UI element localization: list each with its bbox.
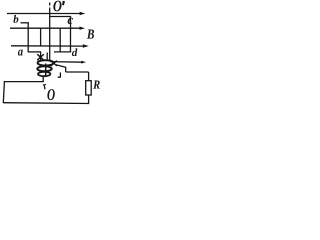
small tick top bar <box>43 84 46 87</box>
coil left end loop wire <box>28 51 41 53</box>
rotation axis O'O main <box>49 8 51 62</box>
field arrow B2 head <box>80 27 86 30</box>
coil left side ab <box>27 22 29 52</box>
brush X2 stroke 2 <box>51 61 57 66</box>
label O' <box>53 1 61 12</box>
label c <box>68 18 73 24</box>
rotation arrow line <box>50 61 82 64</box>
label b <box>13 15 18 23</box>
field arrow B3 head <box>83 44 89 48</box>
resistor bottom lead <box>88 95 90 103</box>
axle bracket to coil right side <box>50 16 71 18</box>
label d <box>72 48 78 56</box>
axle center line through rings <box>45 64 47 77</box>
wire brush2 slant to bend <box>56 65 66 68</box>
rotation arrow head <box>81 61 86 64</box>
brush X1 stroke 1 <box>37 54 44 60</box>
circuit bottom wire <box>3 102 89 105</box>
coil left lead wire lower to ring <box>40 52 42 61</box>
field arrow B3 / coil side ad <box>11 45 84 47</box>
slip ring 1 <box>38 60 54 65</box>
wire right vertical down <box>65 67 67 72</box>
prime of O' <box>62 1 65 6</box>
resistor top lead <box>88 72 90 81</box>
coil right side cd <box>70 17 72 53</box>
brush X2 stroke 1 <box>51 61 57 66</box>
slip ring 2 <box>37 66 51 71</box>
label a <box>18 50 23 56</box>
coil right inner lead wire <box>59 28 61 52</box>
axle segment above rings <box>46 53 48 61</box>
brush X1 stroke 2 <box>37 54 44 60</box>
label-b connector nub <box>21 22 29 24</box>
field arrow B2 / coil side bc <box>10 27 81 29</box>
riser ring3 to circuit <box>42 75 44 81</box>
coil right end loop wire <box>54 51 71 53</box>
field arrow B1 line <box>7 13 81 15</box>
label B <box>87 30 94 39</box>
stub hook foot <box>58 76 61 78</box>
label R <box>93 81 100 89</box>
coil left lead wire upper <box>40 28 42 46</box>
small tick above O <box>43 85 46 90</box>
wire top right horizontal <box>66 71 89 73</box>
stub hook vertical <box>59 72 61 77</box>
rotation axis O'O dash <box>49 3 51 6</box>
resistor R box <box>86 81 92 95</box>
circuit left wire <box>3 82 4 103</box>
slip ring 3 <box>38 72 50 76</box>
circuit top left wire <box>4 81 44 83</box>
field arrow B1 head <box>80 12 86 15</box>
label O <box>47 89 54 100</box>
